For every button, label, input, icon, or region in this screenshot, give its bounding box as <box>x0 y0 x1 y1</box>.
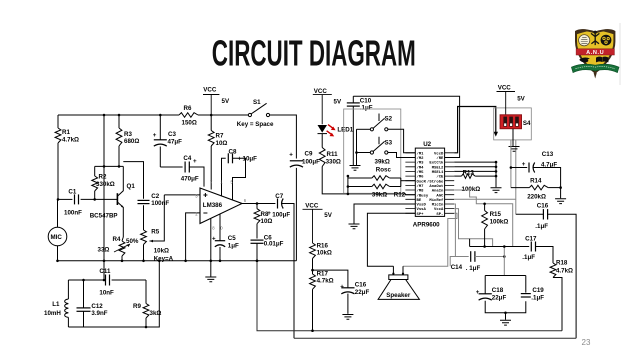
capacitor C4 <box>160 166 182 168</box>
svg-text:ExtClk: ExtClk <box>429 161 444 166</box>
svg-text:C3: C3 <box>168 131 176 138</box>
svg-text:R11: R11 <box>327 151 339 158</box>
svg-text:10kΩ: 10kΩ <box>154 247 169 254</box>
VCC symbol (S4) <box>497 92 516 115</box>
capacitor C3 <box>159 115 161 140</box>
capacitor C11 <box>105 275 107 286</box>
svg-text:CIRCUIT DIAGRAM: CIRCUIT DIAGRAM <box>212 33 416 74</box>
svg-text:R13: R13 <box>463 169 475 176</box>
svg-text:C16: C16 <box>537 203 549 210</box>
switch S2 <box>370 128 373 131</box>
svg-text:VCC: VCC <box>498 84 512 91</box>
ground (MSEL bus) <box>491 188 502 193</box>
svg-text:R17: R17 <box>317 270 329 277</box>
svg-text:VssD: VssD <box>417 204 427 208</box>
svg-text:. 1μF: . 1μF <box>466 265 481 272</box>
capacitor C6 <box>251 239 264 241</box>
svg-text:+: + <box>193 158 197 165</box>
potentiometer R4 <box>119 241 125 256</box>
svg-text:5V: 5V <box>324 212 332 219</box>
U2 pin row 2: /M2 / /RE <box>405 157 454 159</box>
svg-text:+: + <box>153 132 157 139</box>
gray net box (S2/S3/Rosc) <box>344 109 401 193</box>
switch S1 <box>248 113 251 116</box>
U2 pin row 14: SP+ / SP- <box>405 212 454 214</box>
svg-text:39kΩ: 39kΩ <box>375 158 390 165</box>
wire C1/base line <box>58 198 72 200</box>
svg-text:0.01μF: 0.01μF <box>264 240 284 247</box>
capacitor C8 <box>222 158 226 181</box>
U2 pin row 13: VssA / VccA <box>405 208 454 210</box>
wire long output rail bottom <box>294 337 576 339</box>
svg-text:BC547BP: BC547BP <box>90 213 118 220</box>
svg-text:BE: BE <box>417 199 422 203</box>
svg-text:/M2: /M2 <box>417 156 425 161</box>
svg-text:10kΩ: 10kΩ <box>317 250 332 257</box>
svg-text:/M4: /M4 <box>417 165 425 170</box>
ground (C10/S2/S3) <box>356 129 358 165</box>
U2 pin row 7: OscR / /Strobe <box>405 180 454 182</box>
resistor R18 <box>550 263 556 278</box>
svg-text:5V: 5V <box>222 98 230 105</box>
svg-text:S4: S4 <box>523 120 531 127</box>
U2 pin row 8: /M7 / AnaOut <box>405 184 454 186</box>
svg-text:+: + <box>212 235 216 242</box>
switch S3 <box>370 151 373 154</box>
resistor R12 39k <box>348 186 372 188</box>
svg-text:150Ω: 150Ω <box>182 119 197 126</box>
svg-text:C8: C8 <box>229 149 237 156</box>
U2 pin row 10: /Busy / AGC <box>405 194 454 196</box>
svg-text:OscR: OscR <box>417 180 427 184</box>
svg-text:MSEL2: MSEL2 <box>432 166 444 170</box>
svg-text:C17: C17 <box>525 235 537 242</box>
wire C17 net <box>470 246 530 248</box>
capacitor C14 <box>450 257 469 267</box>
svg-text:/M8: /M8 <box>417 189 425 194</box>
svg-text:R4: R4 <box>113 236 121 243</box>
svg-text:Rosc: Rosc <box>376 166 392 173</box>
capacitor C18 <box>479 293 492 295</box>
wire MSEL bus to ground <box>454 161 496 163</box>
svg-text:10Ω: 10Ω <box>261 218 273 225</box>
svg-text:A.N.U: A.N.U <box>586 50 604 56</box>
svg-text:SP-: SP- <box>436 213 443 217</box>
ground (S4) <box>512 129 514 146</box>
op-amp ground pin <box>210 219 212 277</box>
capacitor C19 <box>521 293 531 295</box>
svg-text:R16: R16 <box>317 242 329 249</box>
resistor R15 <box>484 204 486 211</box>
svg-text:.1μF: .1μF <box>531 294 544 301</box>
output wire pin6 <box>242 203 275 205</box>
resistor R6 <box>179 113 198 118</box>
wire collector node <box>95 165 124 167</box>
U2 pin row 1: /M1 / VccD <box>405 152 454 154</box>
U2 pin row 6: /M6 / /CE <box>405 175 454 177</box>
resistor R17 <box>312 259 314 275</box>
svg-text:5V: 5V <box>517 96 525 103</box>
svg-text:.1μF: .1μF <box>535 223 548 230</box>
svg-text:R7: R7 <box>216 133 224 140</box>
capacitor C9 <box>290 160 303 162</box>
svg-text:Q1: Q1 <box>127 183 136 190</box>
ground (C18/C19) <box>505 313 507 320</box>
svg-text:10Ω: 10Ω <box>216 140 228 147</box>
svg-text:R18: R18 <box>556 260 568 267</box>
wire speaker loop (SP+) <box>367 213 415 266</box>
logo right emblem circle <box>601 35 612 46</box>
wire tank top rail with C11 <box>68 279 103 281</box>
svg-text:/M1: /M1 <box>417 151 425 156</box>
wire LED/R11 to U2 busy pin <box>322 167 415 195</box>
svg-text:U2: U2 <box>423 141 431 148</box>
svg-text:/RE: /RE <box>436 156 444 161</box>
capacitor C1 <box>74 194 76 204</box>
wire Rosc left to busy net <box>347 176 349 194</box>
svg-text:S2: S2 <box>385 115 393 122</box>
logo red band A.N.U <box>576 49 614 55</box>
VCC symbol (LED branch) <box>313 95 332 125</box>
resistor R9 <box>145 280 147 304</box>
logo top wings <box>576 29 590 34</box>
LED LED1 <box>318 125 328 133</box>
svg-text:R6: R6 <box>184 105 192 112</box>
svg-text:22μF: 22μF <box>492 294 507 301</box>
logo book emblem <box>596 57 602 63</box>
U2 pin row 5: /M5 / MSEL1 <box>405 170 454 172</box>
logo stem <box>594 73 597 79</box>
svg-text:33Ω: 33Ω <box>98 247 110 254</box>
svg-text:+: + <box>267 210 271 217</box>
svg-text:1μF: 1μF <box>228 242 239 249</box>
U2 pin row 9: /M8 / AnaIn <box>405 189 454 191</box>
svg-text:C18: C18 <box>492 287 504 294</box>
svg-text:23: 23 <box>582 338 591 347</box>
capacitor C12 <box>83 280 85 308</box>
svg-text:MicRef: MicRef <box>429 198 444 203</box>
svg-text:APR9600: APR9600 <box>413 222 440 229</box>
capacitor C16 (22uF) <box>313 270 348 287</box>
ground (C13/R14) <box>555 199 566 204</box>
microphone MIC <box>57 199 59 227</box>
svg-text:/M6: /M6 <box>417 175 425 180</box>
svg-text:C19: C19 <box>532 287 544 294</box>
svg-text:C16: C16 <box>355 281 367 288</box>
svg-text:MicIn: MicIn <box>432 203 444 208</box>
svg-text:/Strobe: /Strobe <box>427 179 444 184</box>
svg-text:MIC: MIC <box>51 234 63 241</box>
wire row11 to C15 left <box>454 198 516 200</box>
capacitor C13 <box>511 167 527 169</box>
svg-text:S3: S3 <box>385 139 393 146</box>
svg-text:10μF: 10μF <box>243 156 258 163</box>
svg-text:5V: 5V <box>334 98 342 105</box>
svg-text:+: + <box>289 151 293 158</box>
svg-text:L1: L1 <box>52 301 60 308</box>
wire long ground rail bottom <box>257 261 562 331</box>
vertical rail x104 <box>103 115 105 280</box>
svg-text:47μF: 47μF <box>168 138 183 145</box>
svg-text:C4: C4 <box>183 155 191 162</box>
svg-text:R15: R15 <box>490 211 502 218</box>
svg-text:Key=A: Key=A <box>154 256 174 263</box>
svg-text:AnaOut: AnaOut <box>429 185 443 189</box>
svg-text:/M7: /M7 <box>417 184 425 189</box>
svg-text:Key = Space: Key = Space <box>237 121 274 128</box>
svg-text:100nF: 100nF <box>64 210 82 217</box>
resistor R13 <box>454 175 461 177</box>
VCC symbol (LM386 supply) <box>203 95 219 116</box>
wire top rail <box>58 114 179 116</box>
speaker <box>389 275 408 280</box>
resistor R14 <box>511 187 529 189</box>
svg-text:3.9nF: 3.9nF <box>91 310 107 317</box>
U2 pin row 3: /M3 / ExtClk <box>405 161 454 163</box>
svg-text:AnaIn: AnaIn <box>432 190 444 194</box>
svg-text:10nF: 10nF <box>99 290 114 297</box>
logo centre figure <box>591 33 599 45</box>
LM386 inverting input wire <box>186 213 200 261</box>
resistor R7 <box>210 115 212 131</box>
svg-text:MSEL1: MSEL1 <box>432 171 444 175</box>
svg-text:4.7μF: 4.7μF <box>541 161 557 168</box>
resistor R3 <box>118 115 120 128</box>
svg-text:R14: R14 <box>530 178 542 185</box>
left rail with resistor R1 <box>57 115 59 128</box>
svg-text:/CE: /CE <box>436 175 444 180</box>
svg-text:22μF: 22μF <box>355 289 370 296</box>
svg-text:+: + <box>340 283 344 290</box>
svg-text:4.7kΩ: 4.7kΩ <box>317 278 334 285</box>
svg-text:100nF: 100nF <box>151 200 169 207</box>
svg-text:VCC: VCC <box>314 88 328 95</box>
svg-text:10mH: 10mH <box>44 310 61 317</box>
ground (op-amp) <box>205 277 216 282</box>
svg-text:.1μF: .1μF <box>522 254 535 261</box>
op-amp pin stubs <box>210 184 212 190</box>
U2 pin row 12: VssD / MicIn <box>405 203 454 205</box>
wire row12 to C14 <box>454 204 455 257</box>
ground (AGC row12 net) <box>354 204 415 224</box>
svg-text:VccA: VccA <box>434 208 444 212</box>
gray net box (S4) <box>494 108 532 140</box>
svg-text:470μF: 470μF <box>181 175 199 182</box>
svg-text:/M5: /M5 <box>417 170 425 175</box>
svg-text:R12: R12 <box>394 191 406 198</box>
svg-text:100μF: 100μF <box>302 159 320 166</box>
svg-text:680Ω: 680Ω <box>124 138 139 145</box>
faint logo frame line <box>619 23 623 85</box>
svg-text:C7: C7 <box>275 193 283 200</box>
svg-text:.1μF: .1μF <box>360 104 373 111</box>
svg-text:+: + <box>476 289 480 296</box>
U2 pin row 11: BE / MicRef <box>405 198 454 200</box>
svg-text:AGC: AGC <box>436 194 444 198</box>
wire speaker coupling vertical <box>503 247 505 276</box>
svg-text:4.7kΩ: 4.7kΩ <box>556 267 573 274</box>
svg-text:330Ω: 330Ω <box>326 158 341 165</box>
ANU logo shield <box>571 29 619 78</box>
svg-text:LED1: LED1 <box>337 127 353 134</box>
svg-text:4.7kΩ: 4.7kΩ <box>62 136 79 143</box>
svg-text:R2: R2 <box>99 174 107 181</box>
VCC symbol (R16 branch) <box>303 209 323 243</box>
svg-text:C5: C5 <box>228 235 236 242</box>
wire tank bottom rail <box>68 261 159 327</box>
svg-text:C12: C12 <box>91 303 103 310</box>
svg-text:R1: R1 <box>62 129 70 136</box>
svg-text:VssA: VssA <box>417 208 427 212</box>
svg-text:C14: C14 <box>451 264 463 271</box>
capacitor C5 <box>219 214 221 240</box>
op-amp U1 LM386 <box>200 188 242 224</box>
resistor R11 <box>321 134 323 148</box>
wire VccD to S4 supply <box>454 107 496 153</box>
svg-text:330kΩ: 330kΩ <box>96 181 115 188</box>
ground (C16) <box>342 315 353 320</box>
wire SP- route <box>403 213 457 266</box>
svg-text:R5: R5 <box>151 229 159 236</box>
svg-text:VCC: VCC <box>203 87 217 94</box>
logo green ribbon <box>571 64 619 72</box>
wire S4 to C13/R14 <box>510 140 512 188</box>
DIP switch S4 <box>500 115 521 129</box>
IC U2 APR9600 <box>415 148 444 216</box>
svg-text:R9: R9 <box>133 303 141 310</box>
svg-text:+: + <box>522 161 526 168</box>
potentiometer R5 <box>141 230 147 245</box>
svg-text:VCC: VCC <box>305 202 319 209</box>
wire C10 top to U2 /RE <box>353 96 459 157</box>
wire staircase row9 to R15 top <box>454 190 513 247</box>
svg-text:SP+: SP+ <box>417 213 425 217</box>
svg-text:C13: C13 <box>542 151 554 158</box>
capacitor C7 <box>277 199 279 209</box>
svg-text:C1: C1 <box>68 189 76 196</box>
svg-text:C2: C2 <box>151 193 159 200</box>
logo left emblem circle <box>579 35 590 46</box>
speaker leads <box>392 266 394 275</box>
svg-text:LM386: LM386 <box>203 202 223 209</box>
capacitor C17 <box>530 242 532 252</box>
inductor L1 <box>67 280 69 299</box>
svg-text:C9: C9 <box>305 150 313 157</box>
capacitor C15 <box>516 213 544 215</box>
svg-text:50%: 50% <box>126 238 139 245</box>
capacitor C2 / pot R5 branch <box>123 162 143 199</box>
resistor R16 <box>310 243 316 259</box>
transistor Q1 BC547BP <box>116 193 118 205</box>
capacitor C10 <box>352 96 354 103</box>
resistor R8 <box>254 209 260 224</box>
wire row13 staircase <box>454 209 492 247</box>
svg-text:/Busy: /Busy <box>417 193 429 198</box>
svg-text:39kΩ: 39kΩ <box>372 191 387 198</box>
svg-text:Speaker: Speaker <box>386 292 411 299</box>
svg-text:/M3: /M3 <box>417 161 425 166</box>
wire C18/C19 box <box>485 275 526 277</box>
svg-text:S1: S1 <box>253 99 261 106</box>
logo bird emblem <box>579 58 590 63</box>
svg-text:220kΩ: 220kΩ <box>527 193 546 200</box>
svg-text:100μF: 100μF <box>272 211 290 218</box>
svg-text:VccD: VccD <box>434 152 444 156</box>
svg-text:+: + <box>238 156 242 163</box>
bottom rail <box>58 260 297 262</box>
resistor R2 <box>94 166 96 176</box>
U2 pin row 4: /M4 / MSEL2 <box>405 166 454 168</box>
svg-text:C11: C11 <box>99 268 111 275</box>
svg-text:R3: R3 <box>124 131 132 138</box>
svg-text:100kΩ: 100kΩ <box>490 218 509 225</box>
wire C9 lower to bottom rail <box>295 168 297 261</box>
